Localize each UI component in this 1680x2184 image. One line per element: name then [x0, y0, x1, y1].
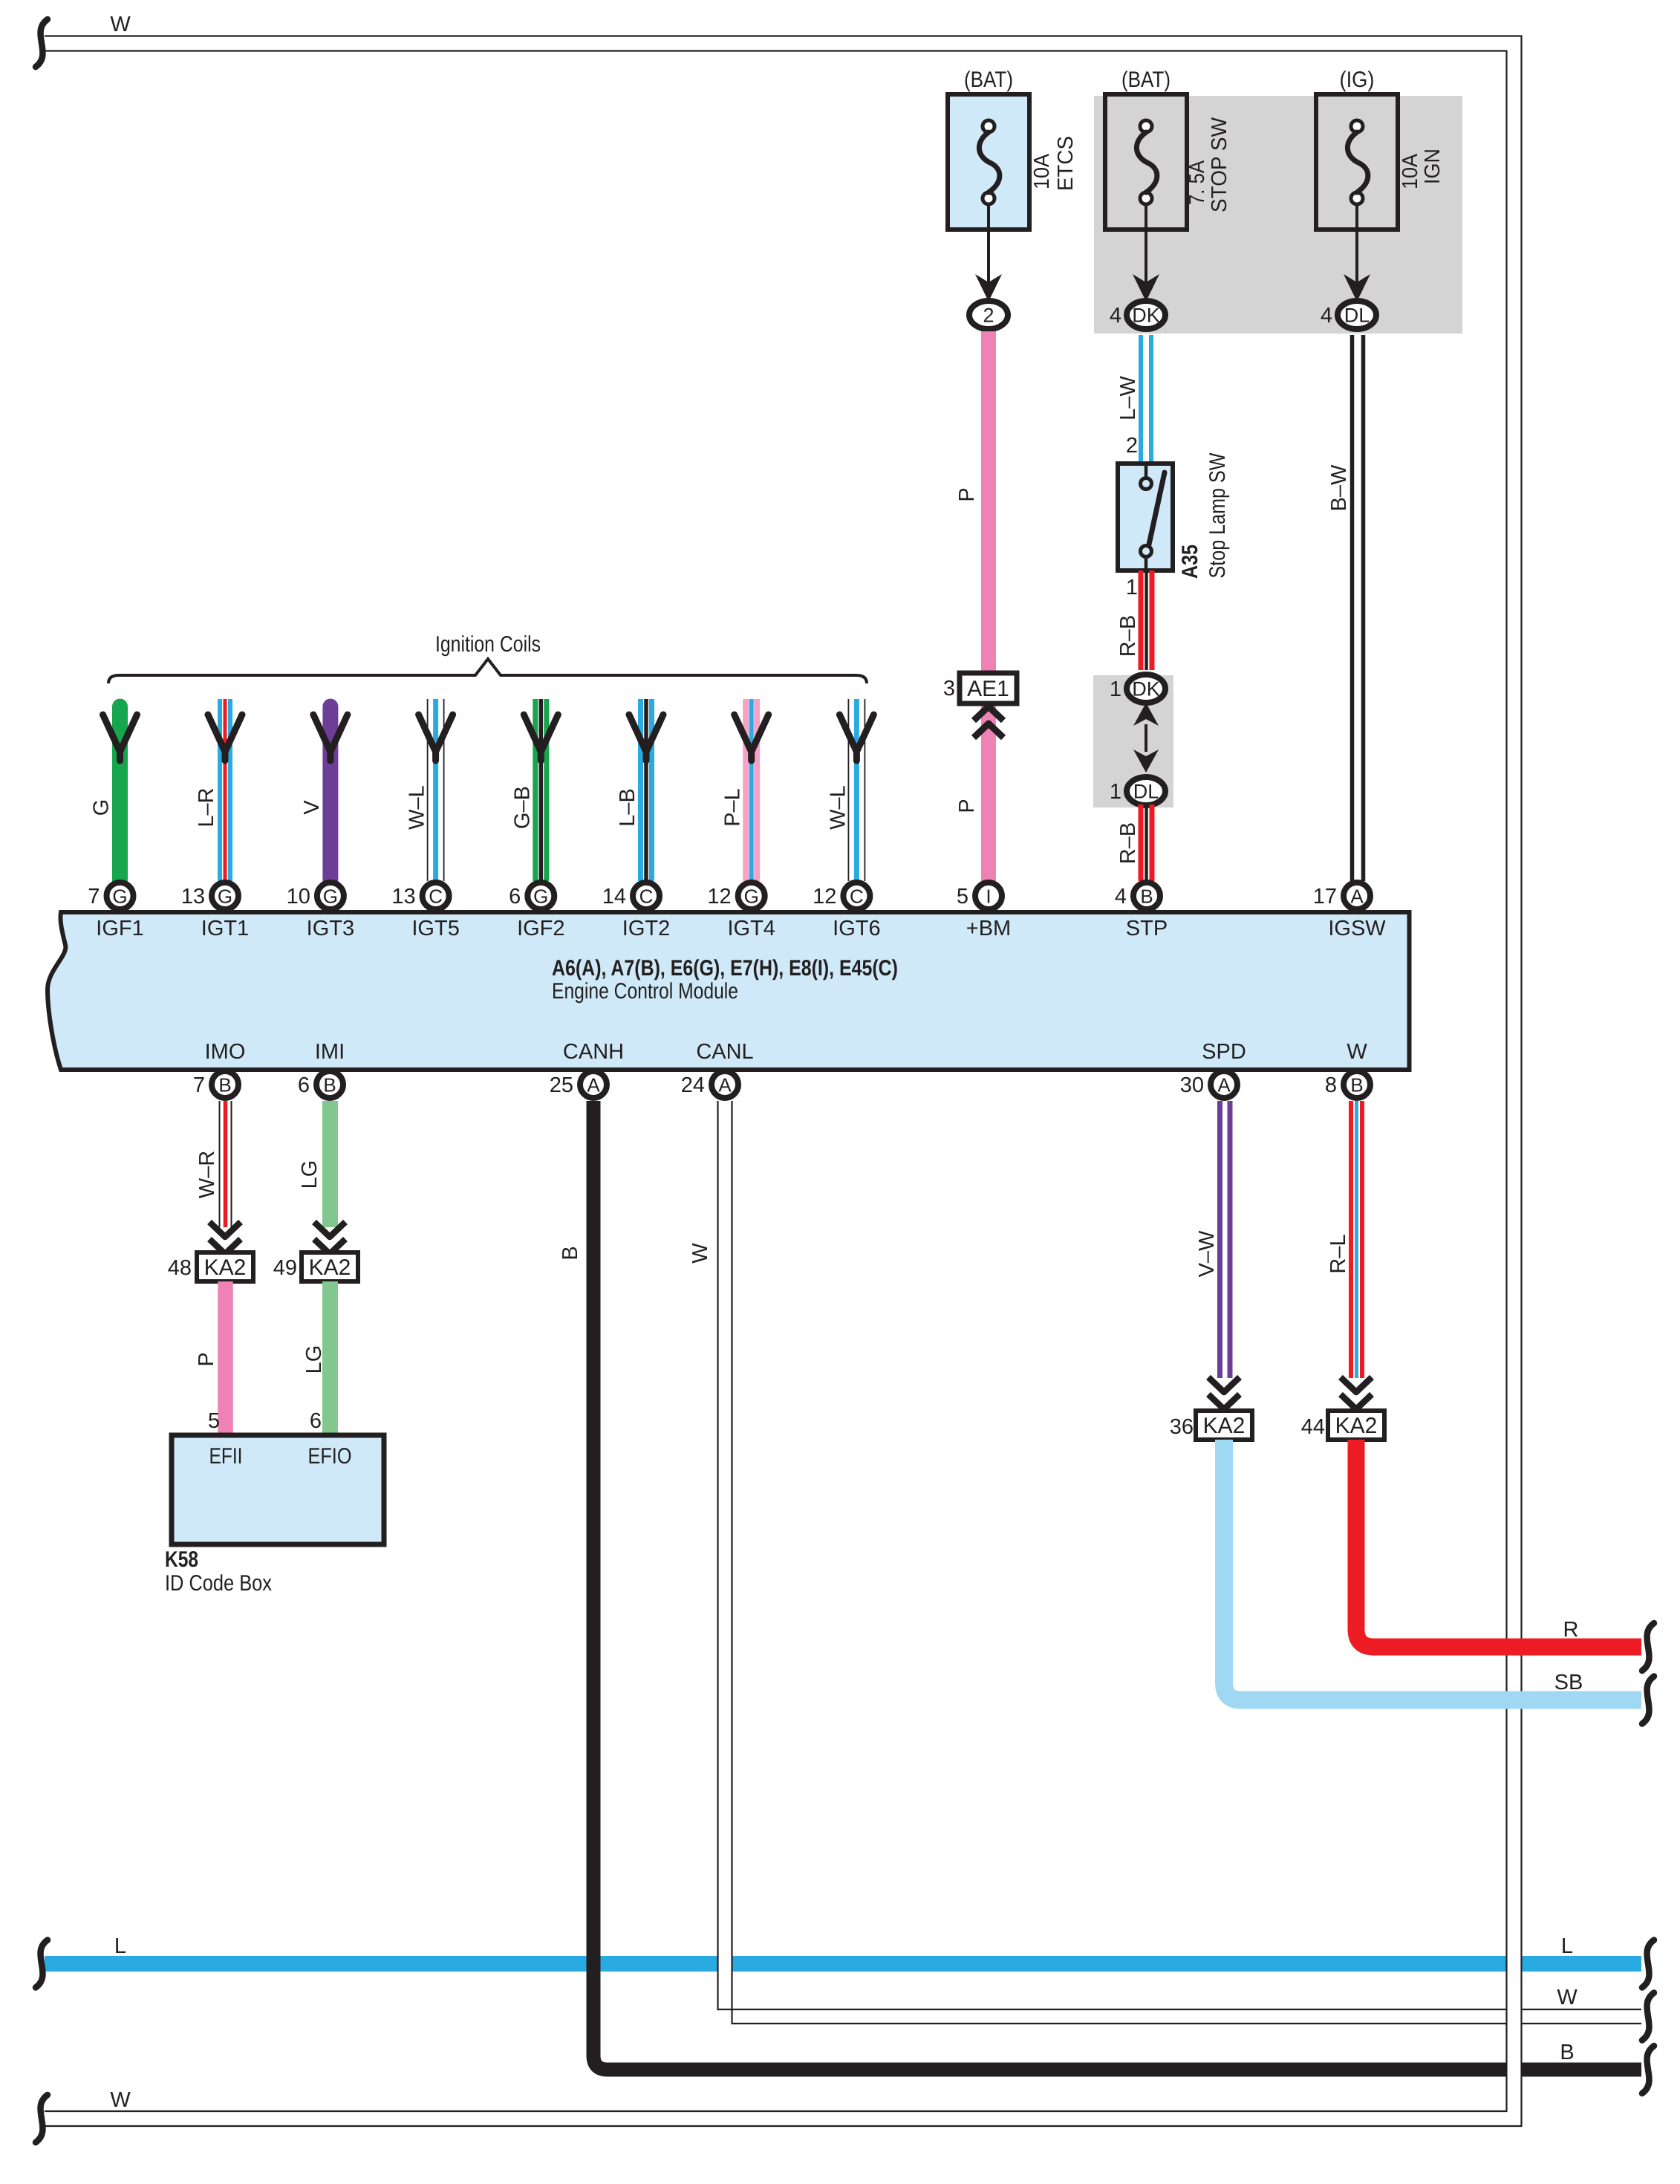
svg-text:6: 6	[509, 885, 521, 909]
svg-text:10A: 10A	[1030, 153, 1054, 189]
svg-text:14: 14	[602, 885, 626, 909]
svg-text:L–R: L–R	[195, 787, 218, 827]
svg-text:B: B	[559, 1246, 582, 1260]
svg-text:1: 1	[1110, 677, 1121, 701]
svg-text:B: B	[1140, 885, 1153, 908]
svg-text:DL: DL	[1344, 305, 1370, 327]
svg-text:12: 12	[707, 885, 731, 909]
svg-text:W: W	[688, 1243, 712, 1264]
svg-text:C: C	[639, 885, 654, 908]
svg-text:W: W	[1347, 1040, 1367, 1064]
svg-text:L: L	[1561, 1934, 1573, 1958]
svg-text:1: 1	[1110, 780, 1121, 804]
svg-text:B: B	[1560, 2041, 1574, 2064]
svg-text:Stop Lamp SW: Stop Lamp SW	[1205, 452, 1230, 579]
svg-text:IGT3: IGT3	[307, 917, 354, 940]
svg-text:CANH: CANH	[563, 1040, 624, 1064]
svg-text:24: 24	[681, 1073, 705, 1097]
svg-text:R–B: R–B	[1116, 615, 1140, 657]
svg-text:KA2: KA2	[1335, 1414, 1378, 1438]
svg-text:KA2: KA2	[309, 1255, 351, 1280]
svg-text:DK: DK	[1132, 678, 1160, 701]
svg-text:7. 5A: 7. 5A	[1185, 160, 1209, 205]
svg-text:48: 48	[168, 1256, 192, 1280]
svg-text:W: W	[110, 13, 131, 36]
svg-text:IGT2: IGT2	[622, 917, 670, 940]
svg-text:IGT1: IGT1	[201, 917, 249, 940]
svg-text:C: C	[429, 885, 443, 908]
svg-text:(IG): (IG)	[1340, 68, 1375, 92]
svg-text:17: 17	[1313, 885, 1337, 909]
svg-text:A: A	[1217, 1074, 1231, 1096]
svg-text:V–W: V–W	[1195, 1230, 1219, 1277]
svg-text:Engine Control Module: Engine Control Module	[552, 979, 738, 1004]
svg-text:13: 13	[391, 885, 415, 909]
svg-text:ETCS: ETCS	[1054, 136, 1078, 191]
svg-text:B: B	[323, 1074, 336, 1096]
svg-text:STP: STP	[1126, 917, 1168, 940]
svg-text:49: 49	[273, 1256, 297, 1280]
svg-text:Ignition Coils: Ignition Coils	[435, 632, 541, 657]
svg-text:L–B: L–B	[616, 788, 639, 827]
svg-text:SPD: SPD	[1202, 1040, 1246, 1064]
svg-text:ID Code Box: ID Code Box	[165, 1571, 272, 1596]
svg-text:DL: DL	[1133, 781, 1159, 803]
svg-text:L–W: L–W	[1116, 376, 1140, 420]
svg-text:4: 4	[1321, 304, 1332, 328]
svg-text:(BAT): (BAT)	[964, 68, 1013, 92]
svg-text:44: 44	[1301, 1415, 1325, 1439]
svg-text:K58: K58	[165, 1547, 198, 1572]
svg-text:R–L: R–L	[1326, 1234, 1350, 1273]
svg-text:IGSW: IGSW	[1328, 917, 1386, 940]
svg-text:KA2: KA2	[204, 1255, 247, 1280]
svg-text:6: 6	[310, 1409, 322, 1433]
svg-text:1: 1	[1126, 576, 1138, 599]
svg-text:4: 4	[1110, 304, 1121, 328]
svg-text:IMO: IMO	[205, 1040, 246, 1064]
svg-text:KA2: KA2	[1203, 1414, 1246, 1438]
svg-text:IMI: IMI	[315, 1040, 345, 1064]
svg-text:36: 36	[1170, 1415, 1194, 1439]
svg-text:R–B: R–B	[1116, 822, 1140, 864]
svg-text:EFIO: EFIO	[308, 1444, 352, 1469]
svg-text:G: G	[90, 799, 114, 816]
svg-text:STOP SW: STOP SW	[1208, 117, 1231, 212]
svg-text:3: 3	[943, 677, 955, 701]
svg-text:W–R: W–R	[195, 1151, 219, 1198]
svg-text:7: 7	[193, 1073, 205, 1097]
svg-text:10A: 10A	[1399, 153, 1422, 189]
svg-text:A: A	[587, 1074, 600, 1096]
svg-text:P: P	[955, 799, 979, 813]
svg-text:2: 2	[1126, 434, 1138, 458]
svg-text:W: W	[110, 2088, 131, 2112]
svg-text:4: 4	[1115, 885, 1127, 909]
svg-text:13: 13	[181, 885, 205, 909]
svg-text:8: 8	[1325, 1073, 1337, 1097]
svg-text:7: 7	[88, 885, 100, 909]
svg-text:LG: LG	[302, 1345, 326, 1374]
svg-text:2: 2	[983, 305, 994, 327]
svg-text:IGT4: IGT4	[727, 917, 775, 940]
svg-text:B–W: B–W	[1327, 464, 1351, 511]
svg-text:G: G	[533, 885, 548, 908]
svg-text:G: G	[744, 885, 759, 908]
svg-text:12: 12	[813, 885, 836, 909]
svg-text:A35: A35	[1178, 545, 1202, 579]
svg-text:30: 30	[1180, 1073, 1204, 1097]
svg-text:W: W	[1557, 1986, 1578, 2009]
svg-text:EFII: EFII	[209, 1444, 243, 1469]
svg-text:CANL: CANL	[696, 1040, 753, 1064]
svg-text:25: 25	[550, 1073, 573, 1097]
svg-text:IGF2: IGF2	[517, 917, 564, 940]
svg-text:P–L: P–L	[721, 788, 745, 827]
svg-text:V: V	[300, 800, 324, 815]
svg-text:W–L: W–L	[826, 785, 850, 830]
svg-text:G–B: G–B	[510, 786, 534, 829]
svg-text:L: L	[114, 1934, 126, 1958]
svg-text:G: G	[112, 885, 127, 908]
svg-text:IGT5: IGT5	[411, 917, 459, 940]
svg-text:I: I	[986, 885, 991, 908]
svg-text:10: 10	[287, 885, 310, 909]
svg-text:IGT6: IGT6	[833, 917, 880, 940]
svg-text:5: 5	[208, 1409, 220, 1433]
svg-text:AE1: AE1	[967, 677, 1009, 701]
svg-text:A6(A), A7(B), E6(G), E7(H), E8: A6(A), A7(B), E6(G), E7(H), E8(I), E45(C…	[552, 956, 898, 981]
svg-text:P: P	[955, 487, 979, 501]
svg-text:SB: SB	[1554, 1671, 1583, 1694]
svg-text:W–L: W–L	[406, 785, 429, 830]
svg-text:G: G	[218, 885, 232, 908]
svg-text:B: B	[1350, 1074, 1363, 1096]
svg-text:5: 5	[957, 885, 968, 909]
svg-text:LG: LG	[298, 1160, 322, 1189]
svg-text:(BAT): (BAT)	[1121, 68, 1171, 92]
svg-text:A: A	[718, 1074, 732, 1096]
svg-text:6: 6	[298, 1073, 310, 1097]
svg-text:C: C	[850, 885, 864, 908]
svg-text:+BM: +BM	[966, 917, 1011, 940]
svg-text:A: A	[1350, 885, 1364, 908]
svg-text:R: R	[1563, 1618, 1579, 1642]
svg-text:P: P	[195, 1352, 218, 1366]
svg-text:IGF1: IGF1	[96, 917, 143, 940]
svg-text:DK: DK	[1132, 305, 1160, 327]
svg-text:B: B	[218, 1074, 231, 1096]
svg-text:IGN: IGN	[1421, 149, 1445, 184]
svg-text:G: G	[323, 885, 338, 908]
